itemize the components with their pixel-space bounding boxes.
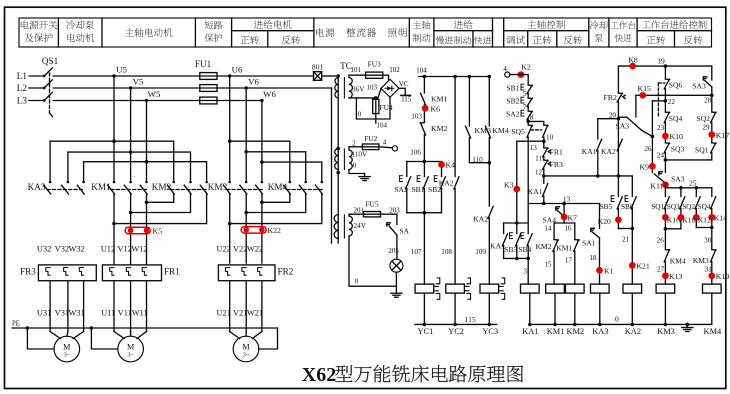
svg-text:V5: V5 [133,77,144,87]
svg-text:SB1: SB1 [411,185,424,194]
svg-text:K8: K8 [628,56,638,65]
svg-text:PE: PE [12,321,20,328]
svg-text:V31: V31 [55,309,69,318]
svg-text:SQ1: SQ1 [695,145,709,154]
svg-text:KM4: KM4 [704,327,722,336]
svg-text:K22: K22 [268,226,282,235]
svg-text:25: 25 [689,178,697,187]
svg-text:36V: 36V [352,86,365,94]
svg-text:3: 3 [523,268,527,276]
svg-text:FR3: FR3 [550,160,564,169]
svg-text:SB6: SB6 [621,202,634,211]
svg-text:SQ2: SQ2 [682,202,695,211]
svg-text:K12: K12 [698,215,711,224]
svg-text:KM1: KM1 [556,244,572,253]
svg-text:FR1: FR1 [550,148,564,157]
svg-text:KA1: KA1 [582,147,597,156]
svg-text:U32: U32 [37,245,51,254]
svg-text:KM3: KM3 [657,327,675,336]
svg-text:L2: L2 [17,83,28,93]
svg-text:W21: W21 [247,309,263,318]
svg-text:V32: V32 [55,245,69,254]
svg-text:FU1: FU1 [195,59,212,69]
svg-text:W32: W32 [69,245,85,254]
svg-text:SA3: SA3 [692,82,706,91]
svg-text:3~: 3~ [243,352,250,359]
svg-text:31: 31 [705,265,713,273]
svg-text:SB2: SB2 [506,97,519,106]
svg-text:13: 13 [530,144,538,152]
svg-text:V11: V11 [118,309,132,318]
svg-text:KA1: KA1 [528,187,543,196]
svg-text:5: 5 [523,90,527,98]
svg-text:7: 7 [523,104,527,112]
svg-text:V6: V6 [248,77,259,87]
svg-text:15: 15 [544,261,552,269]
svg-text:13: 13 [563,196,571,204]
svg-text:KA1: KA1 [490,242,505,251]
svg-text:W22: W22 [247,245,263,254]
svg-text:108: 108 [441,248,452,256]
svg-text:FU3: FU3 [368,60,381,69]
svg-text:YC1: YC1 [417,327,433,336]
svg-text:26: 26 [644,145,652,153]
svg-text:205: 205 [388,247,399,255]
svg-text:21: 21 [622,235,630,243]
svg-text:K20: K20 [598,217,611,226]
svg-text:104: 104 [377,121,388,129]
svg-text:SQ2: SQ2 [696,114,710,123]
svg-text:M: M [242,343,250,352]
svg-text:U11: U11 [101,309,115,318]
svg-text:115: 115 [401,96,412,104]
svg-text:18: 18 [589,254,597,262]
svg-text:K7: K7 [568,214,578,223]
svg-text:801: 801 [312,63,324,72]
svg-text:SQ4: SQ4 [698,202,711,211]
svg-text:KA1: KA1 [522,327,538,336]
svg-text:KM3: KM3 [693,256,709,265]
svg-text:FU5: FU5 [365,200,378,209]
svg-text:K9: K9 [639,162,649,171]
svg-text:FR3: FR3 [20,267,36,277]
svg-text:W12: W12 [131,245,147,254]
svg-text:28: 28 [704,97,712,105]
svg-text:110: 110 [472,156,483,164]
svg-text:FR2: FR2 [278,267,294,277]
svg-text:SQ4: SQ4 [669,114,683,123]
svg-text:FU4: FU4 [380,103,393,112]
svg-text:L1: L1 [17,71,28,81]
svg-text:U5: U5 [116,65,127,75]
svg-text:SB1: SB1 [506,84,519,93]
svg-text:FU2: FU2 [364,134,377,143]
svg-text:107: 107 [411,248,422,256]
svg-text:KM4: KM4 [268,182,288,192]
svg-text:11: 11 [535,154,542,162]
svg-text:K13: K13 [669,272,683,281]
svg-text:YC2: YC2 [448,327,464,336]
svg-text:KM1: KM1 [431,95,448,104]
svg-text:KA2: KA2 [601,147,616,156]
svg-text:K1: K1 [604,266,614,275]
svg-text:SQ3: SQ3 [671,144,685,153]
svg-text:V12: V12 [117,245,131,254]
svg-text:103: 103 [411,113,422,121]
svg-text:SQ5: SQ5 [511,127,525,136]
svg-text:KM2: KM2 [431,124,448,133]
svg-text:W31: W31 [69,309,85,318]
svg-text:U21: U21 [216,309,230,318]
svg-text:3~: 3~ [64,352,71,359]
svg-text:KA3: KA3 [592,327,608,336]
svg-text:17: 17 [565,257,573,265]
svg-text:K18: K18 [682,215,695,224]
svg-text:4: 4 [503,65,507,73]
svg-text:103: 103 [367,83,378,91]
svg-text:10: 10 [546,134,554,142]
svg-text:0: 0 [615,315,619,324]
svg-text:110V: 110V [352,151,369,159]
svg-text:KA2: KA2 [473,214,488,223]
svg-text:V22: V22 [233,245,247,254]
svg-text:26: 26 [657,236,665,244]
svg-text:23: 23 [657,124,665,132]
svg-text:KM1: KM1 [91,182,111,192]
svg-text:U6: U6 [232,65,243,75]
svg-text:16: 16 [564,224,572,232]
svg-text:0: 0 [353,162,357,170]
svg-text:QS1: QS1 [42,56,59,66]
svg-text:KM1: KM1 [547,327,565,336]
svg-text:VC: VC [399,80,409,88]
svg-text:SB4: SB4 [518,245,531,254]
svg-text:M: M [63,343,71,352]
svg-text:KA2: KA2 [439,179,454,188]
svg-text:U12: U12 [101,245,115,254]
svg-text:203: 203 [389,207,400,215]
svg-text:KM3: KM3 [208,182,228,192]
svg-text:8: 8 [530,114,534,122]
svg-text:SB5: SB5 [600,202,613,211]
svg-text:K16: K16 [667,215,680,224]
svg-text:27: 27 [657,265,665,273]
svg-text:U22: U22 [216,245,230,254]
svg-text:SA2: SA2 [394,185,408,194]
svg-text:109: 109 [475,248,486,256]
svg-text:V21: V21 [233,309,247,318]
svg-text:K4: K4 [446,161,456,170]
svg-text:SA2: SA2 [506,110,520,119]
svg-text:K10: K10 [670,132,684,141]
svg-text:KM4: KM4 [670,256,686,265]
svg-text:14: 14 [544,224,552,232]
svg-text:K21: K21 [636,262,650,271]
svg-text:YC3: YC3 [482,327,498,336]
svg-text:0: 0 [358,111,362,119]
svg-text:24V: 24V [354,222,367,230]
svg-text:KA2: KA2 [625,327,641,336]
svg-text:K17: K17 [716,131,730,140]
svg-text:U31: U31 [37,309,51,318]
svg-text:SA1: SA1 [582,239,596,248]
svg-text:FR2: FR2 [603,93,617,102]
svg-text:4: 4 [383,138,387,146]
svg-text:KM2: KM2 [535,242,551,251]
svg-text:K15: K15 [637,84,651,93]
svg-text:SQ6: SQ6 [669,81,683,90]
svg-text:FR1: FR1 [164,267,180,277]
svg-text:12: 12 [535,168,543,176]
svg-text:SQ3: SQ3 [667,202,680,211]
svg-text:24: 24 [657,152,665,160]
svg-text:K11: K11 [650,181,663,190]
svg-text:102: 102 [389,66,400,74]
svg-text:SB3: SB3 [504,245,517,254]
svg-text:SA3: SA3 [671,175,685,184]
svg-text:SA3: SA3 [615,122,629,131]
svg-text:19: 19 [657,57,665,66]
svg-text:30: 30 [704,236,712,244]
svg-text:M: M [127,343,135,352]
svg-text:W5: W5 [148,89,161,99]
svg-text:W6: W6 [263,89,276,99]
svg-text:104: 104 [416,67,427,75]
svg-text:K2: K2 [521,63,531,72]
svg-text:KM2: KM2 [567,327,585,336]
svg-text:3~: 3~ [127,352,134,359]
svg-text:K6: K6 [431,105,441,114]
svg-text:SA: SA [400,227,410,236]
svg-text:101: 101 [351,66,362,74]
svg-text:115: 115 [465,315,476,324]
svg-text:K3: K3 [504,181,514,190]
svg-text:KM4: KM4 [492,126,509,135]
svg-text:K5: K5 [153,227,163,236]
svg-text:X62: X62 [302,364,336,386]
svg-text:KA3: KA3 [28,182,46,192]
svg-text:KM2: KM2 [152,182,172,192]
svg-text:W11: W11 [132,309,148,318]
svg-text:0: 0 [355,278,359,286]
svg-text:K19: K19 [716,272,730,281]
svg-text:106: 106 [410,149,421,157]
svg-text:K14: K14 [714,214,727,223]
svg-text:29: 29 [702,124,710,132]
svg-text:L3: L3 [17,96,28,106]
svg-text:22: 22 [668,98,676,106]
svg-text:SQ1: SQ1 [651,202,664,211]
